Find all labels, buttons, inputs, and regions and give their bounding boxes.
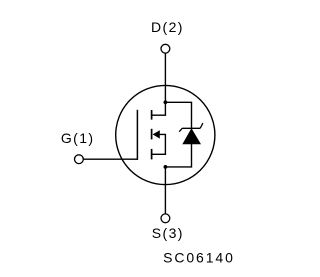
terminal D(2) bbox=[161, 44, 170, 53]
body diode bottom wire bbox=[165, 144, 191, 167]
svg-text:S(3): S(3) bbox=[152, 225, 184, 241]
channel segment top bbox=[151, 110, 153, 120]
drain stub bbox=[151, 114, 166, 116]
node drain junction dot bbox=[164, 100, 168, 104]
svg-text:D(2): D(2) bbox=[151, 19, 184, 35]
gate electrode bar bbox=[136, 110, 138, 160]
body arrow wire bbox=[158, 134, 165, 154]
zener tick right bbox=[200, 123, 203, 128]
body arrow head bbox=[153, 130, 160, 138]
channel segment bottom bbox=[151, 149, 153, 160]
body diode top wire bbox=[165, 102, 191, 129]
gate wire bbox=[84, 158, 138, 160]
terminal S(3) bbox=[161, 214, 170, 223]
source stub bbox=[151, 153, 166, 155]
svg-text:G(1): G(1) bbox=[61, 130, 95, 146]
body diode triangle bbox=[183, 129, 200, 144]
terminal G(1) bbox=[75, 155, 84, 164]
source wire bbox=[164, 167, 166, 214]
envelope circle bbox=[116, 85, 215, 184]
node source junction dot bbox=[164, 165, 168, 169]
zener tick left bbox=[179, 128, 182, 131]
channel segment middle bbox=[151, 129, 153, 140]
drain wire bbox=[164, 53, 166, 115]
zener cathode bar bbox=[182, 127, 200, 129]
svg-text:SC06140: SC06140 bbox=[163, 250, 235, 266]
